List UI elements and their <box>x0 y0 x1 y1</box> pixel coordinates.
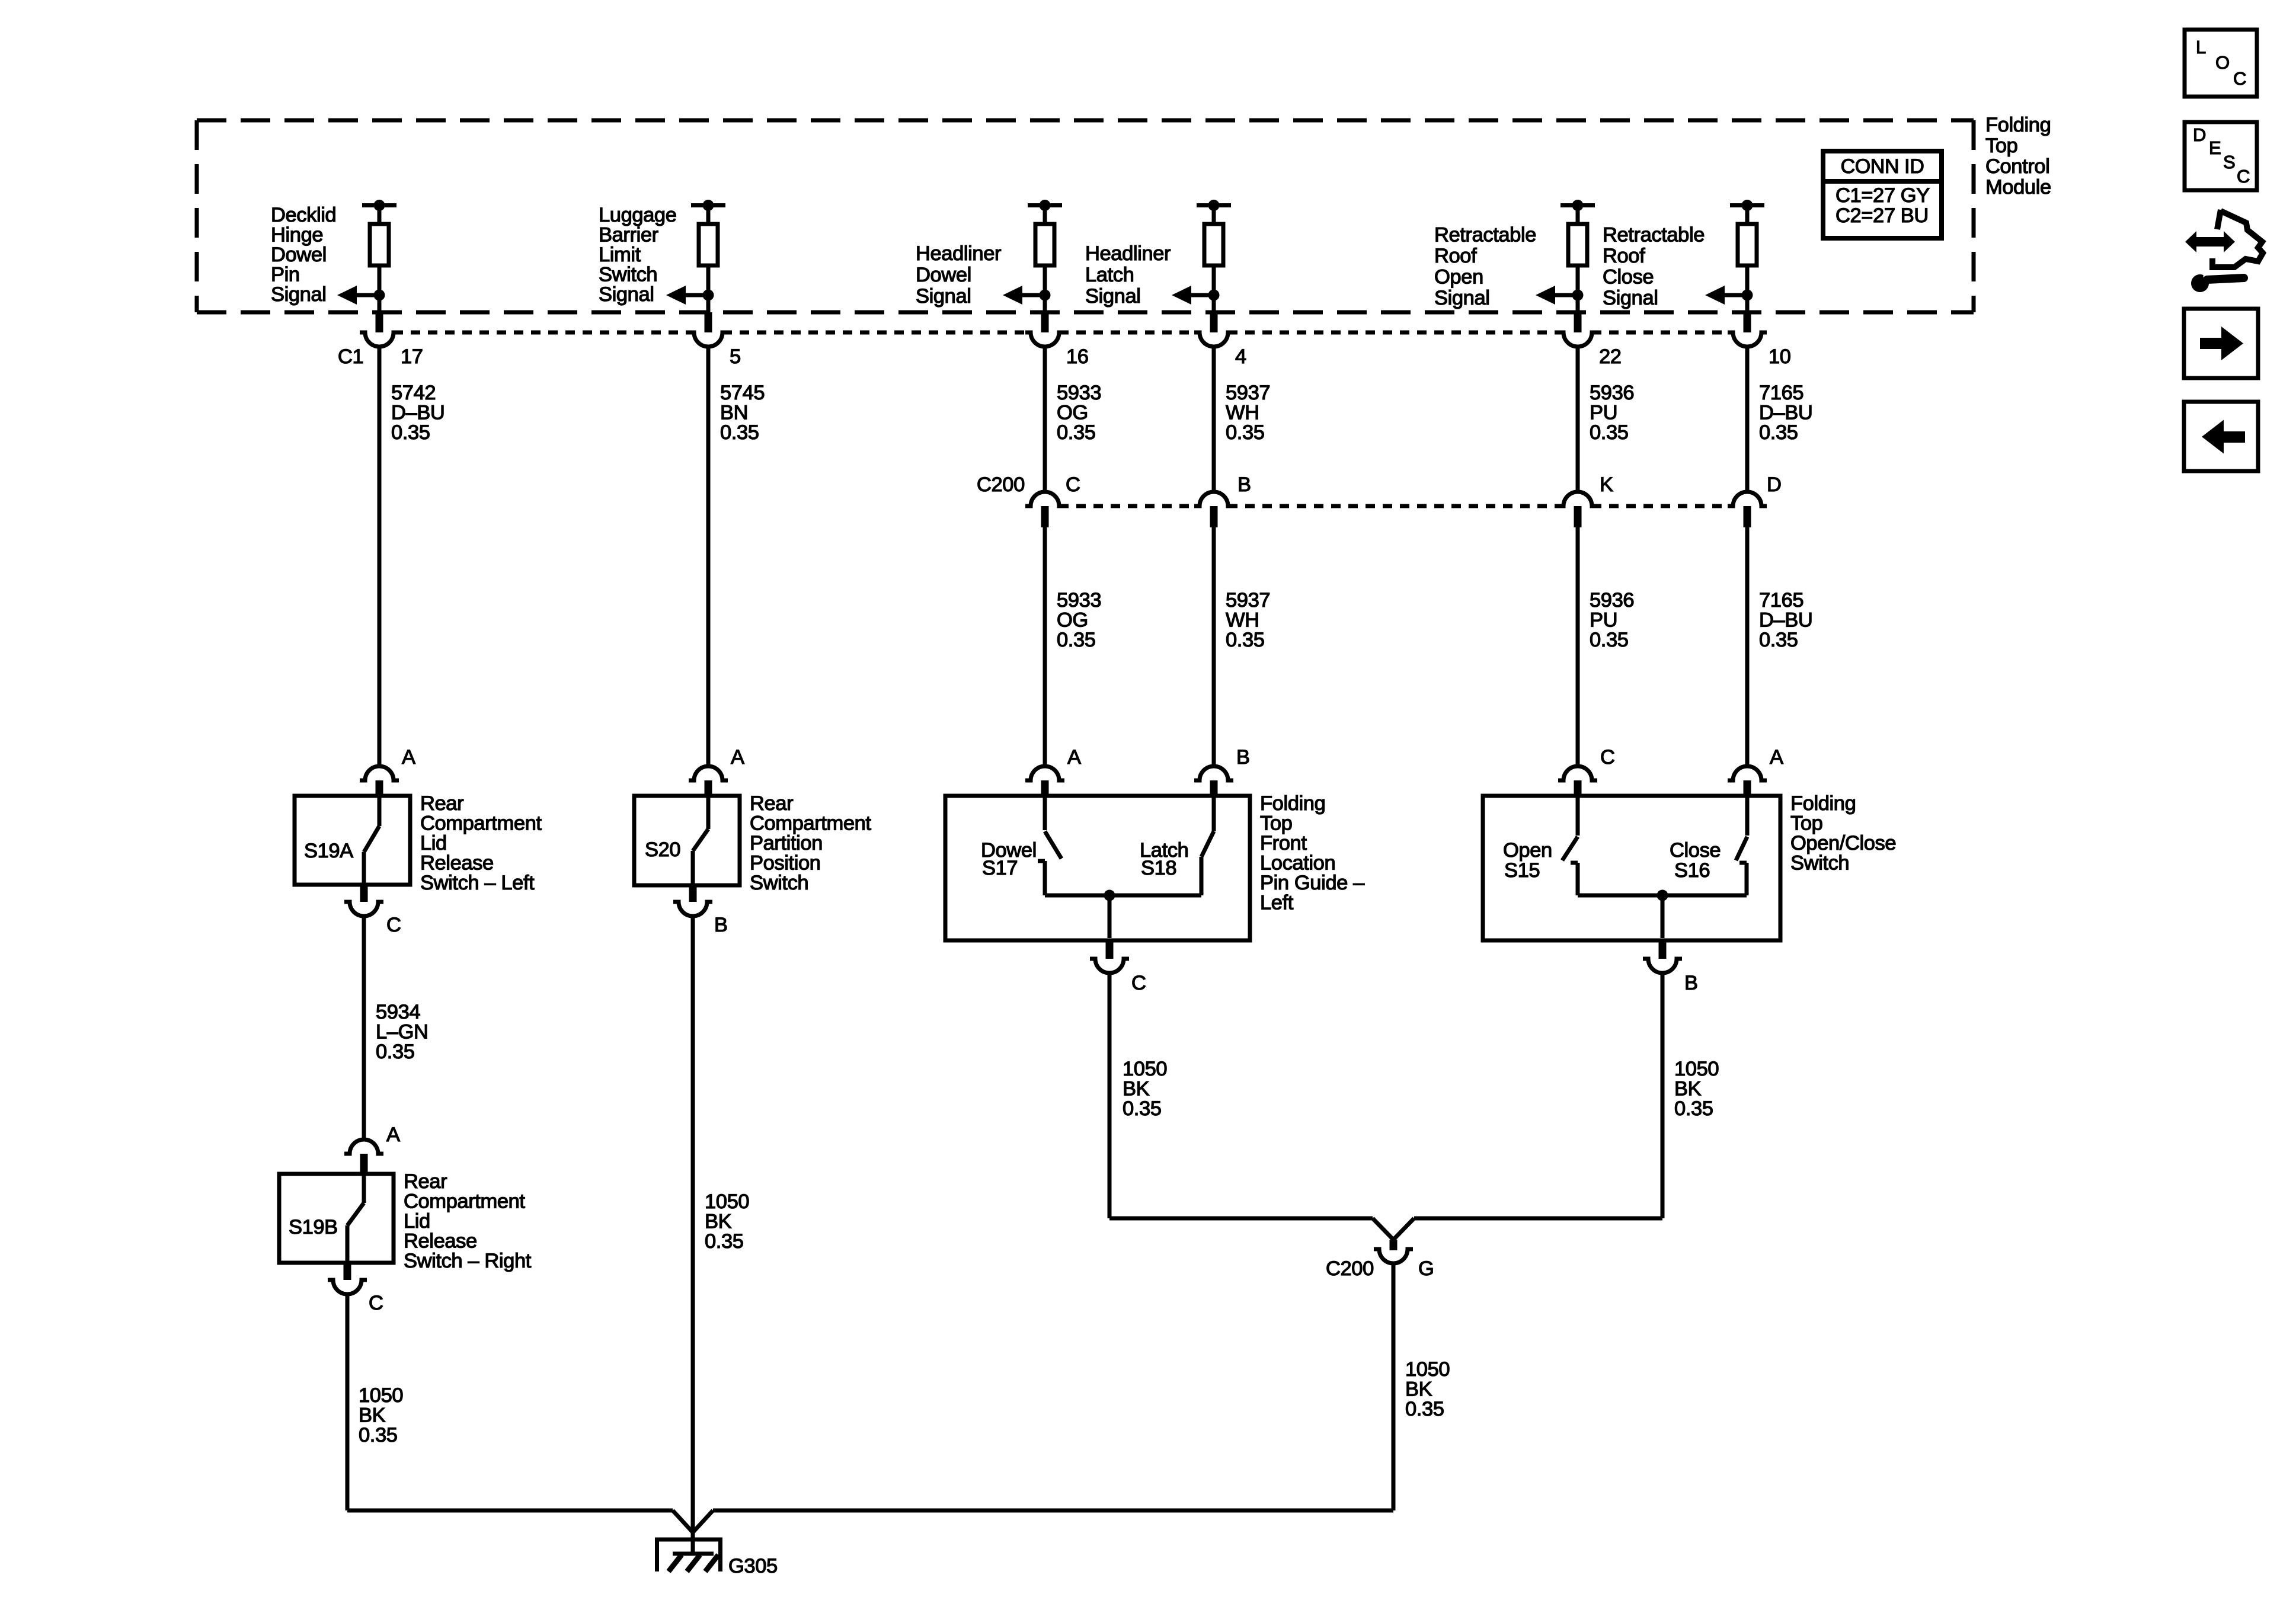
svg-text:Signal: Signal <box>1434 287 1490 309</box>
svg-text:S20: S20 <box>645 838 680 861</box>
connector pin A above switch col2 <box>689 766 728 796</box>
resistor R3 Headliner Dowel <box>1028 200 1062 314</box>
wire label 2 5936 <box>1590 589 1634 651</box>
svg-text:Roof: Roof <box>1603 245 1645 267</box>
connector label C200 <box>977 473 1025 496</box>
svg-text:Dowel: Dowel <box>916 264 971 286</box>
svg-text:C: C <box>2233 68 2246 89</box>
svg-text:Decklid: Decklid <box>271 204 336 226</box>
resistor R4 Headliner Latch <box>1197 200 1231 314</box>
svg-text:Roof: Roof <box>1434 245 1477 267</box>
svg-text:S17: S17 <box>982 857 1018 879</box>
svg-text:1050: 1050 <box>1405 1358 1450 1381</box>
wire x=2048 to C200 <box>1212 347 1216 493</box>
wire label 5745 BN <box>720 382 765 444</box>
S17/S18 output wire <box>1108 895 1112 938</box>
switch S15 Open blade <box>1562 796 1578 895</box>
svg-text:Open: Open <box>1434 266 1483 289</box>
wire x=2948 to C200 <box>1745 347 1750 493</box>
wire label 1050 BK left <box>1123 1058 1167 1120</box>
connector pin A above switch col1 <box>360 766 399 796</box>
svg-text:4: 4 <box>1235 345 1246 368</box>
wire label 1050 BK S19B <box>359 1384 403 1446</box>
S17 designator <box>981 839 1037 879</box>
resistor R5 Retractable Roof Open <box>1560 200 1595 314</box>
svg-text:S16: S16 <box>1674 859 1710 882</box>
pin letter B S20 <box>714 914 728 936</box>
S17/S18 box description <box>1260 792 1365 914</box>
ground G305 symbol <box>655 1539 722 1571</box>
wire label 7165 D–BU <box>1759 382 1812 444</box>
svg-text:Signal: Signal <box>1603 287 1658 309</box>
wire x=1763 to C200 <box>1043 347 1047 493</box>
switch box S19A <box>295 796 410 885</box>
S19A designator <box>304 840 353 862</box>
switch S19A blade <box>364 796 379 885</box>
svg-text:0.35: 0.35 <box>705 1230 744 1253</box>
wire col5 C200 to switch <box>1576 527 1580 767</box>
signal arrow circuit 1 <box>337 286 385 305</box>
svg-text:PU: PU <box>1590 402 1617 424</box>
wire S19B to ground bus <box>346 1294 350 1510</box>
switch box S20 <box>634 796 740 885</box>
resistor R2 Luggage Barrier Limit <box>691 200 725 314</box>
wire C200 G to ground bus <box>693 1263 1393 1532</box>
svg-text:WH: WH <box>1226 402 1259 424</box>
svg-text:S15: S15 <box>1504 859 1540 882</box>
svg-text:A: A <box>386 1124 400 1146</box>
svg-text:Signal: Signal <box>1085 285 1141 308</box>
svg-text:CONN ID: CONN ID <box>1841 155 1924 178</box>
svg-text:Retractable: Retractable <box>1434 224 1536 247</box>
S18 designator <box>1140 839 1188 879</box>
pin number 5 <box>730 345 741 368</box>
wire col6 C200 to switch <box>1745 527 1750 767</box>
connector pin B below S15/S16 <box>1643 940 1682 973</box>
svg-text:5745: 5745 <box>720 382 765 404</box>
svg-text:Compartment: Compartment <box>404 1190 525 1213</box>
svg-text:Switch – Left: Switch – Left <box>420 872 535 894</box>
svg-text:Headliner: Headliner <box>1085 242 1171 265</box>
svg-text:22: 22 <box>1599 345 1622 368</box>
signal label: Headliner Dowel Signal <box>916 242 1001 308</box>
svg-text:Pin Guide –: Pin Guide – <box>1260 872 1365 894</box>
svg-text:G305: G305 <box>728 1555 778 1577</box>
svg-text:Retractable: Retractable <box>1603 224 1705 247</box>
wire label 1050 BK ground <box>1405 1358 1450 1420</box>
connector pin B below S20 <box>673 885 712 916</box>
svg-text:L: L <box>2196 37 2206 57</box>
svg-text:D–BU: D–BU <box>1759 402 1812 424</box>
switch S19B blade <box>347 1174 364 1263</box>
svg-text:Limit: Limit <box>599 244 641 266</box>
svg-text:Top: Top <box>1260 812 1292 835</box>
svg-text:1050: 1050 <box>359 1384 403 1407</box>
svg-text:E: E <box>2209 137 2221 158</box>
S19A description <box>420 792 542 894</box>
svg-text:10: 10 <box>1769 345 1791 368</box>
svg-text:B: B <box>714 914 728 936</box>
switch box S19B <box>279 1174 394 1263</box>
svg-text:B: B <box>1684 972 1698 994</box>
svg-text:0.35: 0.35 <box>1057 421 1096 444</box>
svg-text:Open/Close: Open/Close <box>1790 832 1896 854</box>
connector C200 pin G <box>1374 1240 1413 1263</box>
S20 designator <box>645 838 680 861</box>
svg-text:Rear: Rear <box>420 792 463 815</box>
svg-text:C: C <box>369 1292 383 1314</box>
svg-text:Folding: Folding <box>1790 792 1856 815</box>
svg-text:5934: 5934 <box>376 1001 420 1023</box>
svg-text:OG: OG <box>1057 402 1088 424</box>
svg-text:C200: C200 <box>1326 1257 1374 1280</box>
signal label: Decklid Hinge Dowel Pin Signal <box>271 204 336 306</box>
svg-text:D–BU: D–BU <box>391 402 445 424</box>
svg-text:Control: Control <box>1985 155 2049 178</box>
resistor R6 Retractable Roof Close <box>1730 200 1764 314</box>
ground label G305 <box>728 1555 778 1577</box>
wire label 2 5933 <box>1057 589 1101 651</box>
svg-text:Switch: Switch <box>599 264 657 286</box>
pin letter A col6 <box>1770 746 1783 769</box>
pin number 4 <box>1235 345 1246 368</box>
svg-text:5933: 5933 <box>1057 382 1101 404</box>
C200 pin letter K <box>1600 473 1613 496</box>
svg-text:Hinge: Hinge <box>271 224 323 247</box>
svg-text:Pin: Pin <box>271 264 300 286</box>
connector C1/C2 pin 22 stub+arc <box>1558 312 1597 347</box>
svg-text:PU: PU <box>1590 609 1617 632</box>
pin letter C S19B <box>369 1292 383 1314</box>
svg-text:0.35: 0.35 <box>359 1424 398 1446</box>
svg-text:D–BU: D–BU <box>1759 609 1812 632</box>
svg-text:Top: Top <box>1985 135 2017 157</box>
icon prev-page arrow box <box>2184 402 2258 471</box>
CONN ID table <box>1823 151 1942 238</box>
pin letter A col2 <box>731 746 744 769</box>
pin letter A col1 <box>402 746 415 769</box>
signal arrow circuit 3 <box>1003 286 1051 305</box>
connector pin C below S19A <box>344 885 383 916</box>
wire label 5937 WH <box>1226 382 1270 444</box>
svg-text:Lid: Lid <box>404 1210 430 1233</box>
S15/S16 output wire <box>1661 895 1665 938</box>
icon next-page arrow box <box>2184 309 2258 378</box>
svg-text:C: C <box>1066 473 1080 496</box>
signal label: Luggage Barrier Limit Switch Signal <box>599 204 677 306</box>
svg-text:Barrier: Barrier <box>599 224 658 247</box>
svg-text:Signal: Signal <box>271 283 327 306</box>
C200 pin letter C <box>1066 473 1080 496</box>
signal arrow circuit 6 <box>1705 286 1753 305</box>
svg-text:Signal: Signal <box>599 283 654 306</box>
svg-text:5936: 5936 <box>1590 589 1634 612</box>
svg-text:Position: Position <box>750 852 821 875</box>
connector C200 arc col 6 <box>1728 492 1767 527</box>
svg-text:Rear: Rear <box>404 1170 447 1193</box>
svg-text:7165: 7165 <box>1759 589 1803 612</box>
wire S15/S16 B to C200 G <box>1393 973 1662 1240</box>
svg-text:C1: C1 <box>338 345 363 368</box>
connector pin A above S19B <box>344 1140 383 1174</box>
S19B designator <box>289 1216 338 1238</box>
svg-text:B: B <box>1237 473 1251 496</box>
svg-text:C200: C200 <box>977 473 1025 496</box>
module name label <box>1985 114 2051 199</box>
svg-text:C: C <box>1600 746 1615 769</box>
icon repair wrench with double arrow <box>2185 210 2263 292</box>
svg-text:17: 17 <box>401 345 423 368</box>
connector pin C below S19B <box>328 1263 367 1294</box>
svg-text:B: B <box>1236 746 1250 769</box>
svg-text:0.35: 0.35 <box>376 1041 415 1063</box>
svg-text:Rear: Rear <box>750 792 793 815</box>
svg-text:C: C <box>386 914 401 936</box>
connector pin A above switch col3 <box>1025 766 1064 796</box>
svg-text:Left: Left <box>1260 892 1294 914</box>
connector C1/C2 pin 5 stub+arc <box>689 312 728 347</box>
module: Folding Top Control Module dashed box <box>197 120 1974 312</box>
svg-text:C2=27 BU: C2=27 BU <box>1835 204 1929 227</box>
svg-text:S19B: S19B <box>289 1216 338 1238</box>
svg-text:A: A <box>731 746 744 769</box>
wire label 2 5937 <box>1226 589 1270 651</box>
svg-text:Open: Open <box>1503 839 1552 862</box>
svg-text:S19A: S19A <box>304 840 353 862</box>
svg-text:A: A <box>1770 746 1783 769</box>
svg-text:G: G <box>1418 1257 1434 1280</box>
connector pin C above switch col5 <box>1558 766 1597 796</box>
svg-text:Dowel: Dowel <box>271 244 327 266</box>
svg-text:5: 5 <box>730 345 741 368</box>
svg-text:7165: 7165 <box>1759 382 1803 404</box>
svg-text:0.35: 0.35 <box>1405 1398 1444 1420</box>
pin number 10 <box>1769 345 1791 368</box>
wire label 2 7165 <box>1759 589 1812 651</box>
svg-text:0.35: 0.35 <box>1226 629 1265 651</box>
icon LOC box <box>2185 30 2257 97</box>
connector pin C below S17/S18 <box>1090 940 1129 973</box>
svg-text:1050: 1050 <box>1123 1058 1167 1080</box>
pin letter C S19A <box>386 914 401 936</box>
svg-text:Module: Module <box>1985 176 2051 199</box>
C200 connector dotted line <box>1059 504 1733 508</box>
S15/S16 box description <box>1790 792 1896 875</box>
switch S18 Latch blade <box>1201 796 1214 895</box>
svg-text:Switch: Switch <box>1790 852 1849 875</box>
pin letter A col3 <box>1067 746 1081 769</box>
svg-text:Top: Top <box>1790 812 1822 835</box>
svg-text:Lid: Lid <box>420 832 447 854</box>
S15 designator <box>1503 839 1552 882</box>
pin number 16 <box>1066 345 1089 368</box>
C200 pin letter D <box>1767 473 1782 496</box>
svg-text:1050: 1050 <box>705 1190 749 1213</box>
pin letter C S17/S18 <box>1131 972 1146 994</box>
svg-text:5936: 5936 <box>1590 382 1634 404</box>
connector C1/C2 pin 10 stub+arc <box>1728 312 1767 347</box>
svg-text:Close: Close <box>1603 266 1654 289</box>
switch box S17/S18 Folding Top Front Location Pin Guide <box>945 796 1250 940</box>
svg-text:C: C <box>1131 972 1146 994</box>
S20 description <box>750 792 871 894</box>
svg-text:16: 16 <box>1066 345 1089 368</box>
svg-text:Compartment: Compartment <box>420 812 542 835</box>
C200 pin letter B <box>1237 473 1251 496</box>
svg-text:Release: Release <box>420 852 494 875</box>
pin letter B S15/S16 <box>1684 972 1698 994</box>
connector pin A above switch col6 <box>1728 766 1767 796</box>
svg-text:BK: BK <box>705 1211 732 1233</box>
pin letter B col4 <box>1236 746 1250 769</box>
wire label 5936 PU <box>1590 382 1634 444</box>
svg-text:A: A <box>1067 746 1081 769</box>
svg-text:WH: WH <box>1226 609 1259 632</box>
svg-text:5742: 5742 <box>391 382 436 404</box>
svg-text:Headliner: Headliner <box>916 242 1001 265</box>
pin number 17 <box>401 345 423 368</box>
wire label 5742 D–BU <box>391 382 445 444</box>
svg-text:BK: BK <box>1405 1378 1432 1401</box>
connector C200 arc col 5 <box>1558 492 1597 527</box>
svg-text:OG: OG <box>1057 609 1088 632</box>
svg-text:Location: Location <box>1260 852 1335 875</box>
svg-text:0.35: 0.35 <box>391 421 430 444</box>
S17/S18 common bus <box>1045 890 1201 901</box>
svg-text:0.35: 0.35 <box>1590 629 1629 651</box>
signal arrow circuit 4 <box>1172 286 1220 305</box>
svg-text:Release: Release <box>404 1230 477 1253</box>
pin letter C col5 <box>1600 746 1615 769</box>
connector C1/C2 pin 17 stub+arc <box>360 312 399 347</box>
svg-text:0.35: 0.35 <box>1759 629 1798 651</box>
signal label: Retractable Roof Close Signal <box>1603 224 1705 310</box>
pin number 22 <box>1599 345 1622 368</box>
signal label: Retractable Roof Open Signal <box>1434 224 1536 310</box>
svg-text:S: S <box>2223 152 2235 172</box>
svg-text:0.35: 0.35 <box>1759 421 1798 444</box>
svg-text:K: K <box>1600 473 1613 496</box>
S19B description <box>404 1170 532 1272</box>
svg-text:S18: S18 <box>1141 857 1176 879</box>
switch S16 Close blade <box>1736 796 1747 895</box>
switch S20 blade <box>693 796 708 885</box>
svg-text:0.35: 0.35 <box>1057 629 1096 651</box>
svg-text:O: O <box>2215 52 2230 73</box>
svg-text:Folding: Folding <box>1985 114 2051 136</box>
svg-text:Switch – Right: Switch – Right <box>404 1250 532 1272</box>
svg-text:D: D <box>2193 124 2206 145</box>
connector C200 arc col 4 <box>1194 492 1233 527</box>
wire S20 to ground <box>691 916 695 1553</box>
S15/S16 common bus <box>1578 890 1747 901</box>
svg-text:0.35: 0.35 <box>1590 421 1629 444</box>
icon DESC box <box>2185 122 2257 190</box>
wire x=2662 to C200 <box>1576 347 1580 493</box>
pin letter A S19B <box>386 1124 400 1146</box>
wire S17/S18 C to C200 G <box>1109 973 1393 1240</box>
svg-text:5937: 5937 <box>1226 382 1270 404</box>
wire col4 C200 to switch <box>1212 527 1216 767</box>
switch S17 Dowel blade <box>1038 796 1061 895</box>
svg-text:Switch: Switch <box>750 872 808 894</box>
svg-text:Signal: Signal <box>916 285 971 308</box>
svg-text:BN: BN <box>720 402 748 424</box>
svg-text:0.35: 0.35 <box>1674 1097 1713 1120</box>
svg-text:BK: BK <box>359 1404 386 1427</box>
svg-text:0.35: 0.35 <box>1123 1097 1162 1120</box>
svg-text:Front: Front <box>1260 832 1307 854</box>
svg-text:BK: BK <box>1123 1078 1150 1100</box>
svg-text:A: A <box>402 746 415 769</box>
svg-text:5933: 5933 <box>1057 589 1101 612</box>
wire label 5933 OG <box>1057 382 1101 444</box>
wire label 1050 BK right <box>1674 1058 1719 1120</box>
signal arrow circuit 5 <box>1536 286 1584 305</box>
svg-text:Folding: Folding <box>1260 792 1325 815</box>
connector label C1 <box>338 345 363 368</box>
connector C200 arc col 3 <box>1025 492 1064 527</box>
wire label 5934 L-GN <box>376 1001 428 1063</box>
svg-text:C: C <box>2237 166 2250 187</box>
ground bus left segment <box>347 1510 693 1532</box>
svg-text:D: D <box>1767 473 1782 496</box>
svg-text:0.35: 0.35 <box>720 421 759 444</box>
resistor R1 Decklid Hinge Dowel Pin <box>362 200 396 314</box>
svg-text:Compartment: Compartment <box>750 812 871 835</box>
signal arrow circuit 2 <box>666 286 714 305</box>
svg-text:5937: 5937 <box>1226 589 1270 612</box>
wire circuit2 to S20 <box>706 347 711 767</box>
svg-text:BK: BK <box>1674 1078 1702 1100</box>
signal label: Headliner Latch Signal <box>1085 242 1171 308</box>
connector C1/C2 pin 4 stub+arc <box>1194 312 1233 347</box>
wire label 1050 BK S20 <box>705 1190 749 1253</box>
svg-text:Partition: Partition <box>750 832 823 854</box>
svg-text:1050: 1050 <box>1674 1058 1719 1080</box>
wire S19A to S19B <box>362 916 366 1140</box>
S16 designator <box>1670 839 1721 882</box>
C1/C2 connector dotted line <box>394 331 1733 335</box>
svg-text:L–GN: L–GN <box>376 1021 428 1044</box>
switch box S15/S16 Folding Top Open/Close Switch <box>1483 796 1780 940</box>
svg-text:Luggage: Luggage <box>599 204 677 226</box>
svg-text:Close: Close <box>1670 839 1721 862</box>
svg-text:0.35: 0.35 <box>1226 421 1265 444</box>
wire col3 C200 to switch <box>1043 527 1047 767</box>
svg-text:C1=27 GY: C1=27 GY <box>1835 184 1930 207</box>
wire circuit1 to S19A <box>378 347 382 767</box>
connector label C200 G <box>1326 1257 1434 1280</box>
svg-text:Latch: Latch <box>1085 264 1134 286</box>
connector C1/C2 pin 16 stub+arc <box>1025 312 1064 347</box>
connector pin B above switch col4 <box>1194 766 1233 796</box>
